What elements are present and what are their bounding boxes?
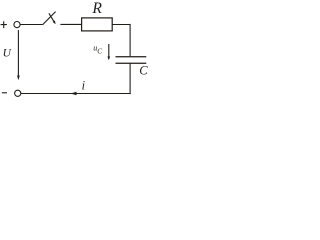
terminal bottom-left [15, 90, 21, 96]
svg-text:i: i [82, 79, 86, 93]
wire top-left horizontal [20, 24, 43, 26]
resistor R box [82, 18, 113, 31]
svg-text:C: C [139, 64, 148, 78]
wire resistor to corner [112, 24, 130, 26]
capacitor C bottom plate [116, 62, 147, 64]
wire right vertical upper [129, 24, 131, 56]
switch closing arrow [49, 13, 56, 24]
capacitor C top plate [116, 56, 147, 58]
switch S blade [43, 12, 56, 25]
wire switch to resistor [60, 23, 81, 25]
svg-text:C: C [97, 48, 102, 56]
minus polarity sign [2, 92, 7, 94]
wire bottom horizontal [21, 93, 131, 95]
terminal top-left [14, 22, 20, 28]
plus polarity sign [1, 21, 7, 28]
label uC [93, 44, 102, 56]
svg-text:R: R [91, 0, 102, 17]
wire right vertical lower [129, 63, 131, 94]
current i arrowhead [71, 92, 77, 96]
uC reference arrow [107, 44, 110, 60]
svg-text:U: U [3, 48, 12, 60]
source voltage U arrow [17, 30, 20, 80]
